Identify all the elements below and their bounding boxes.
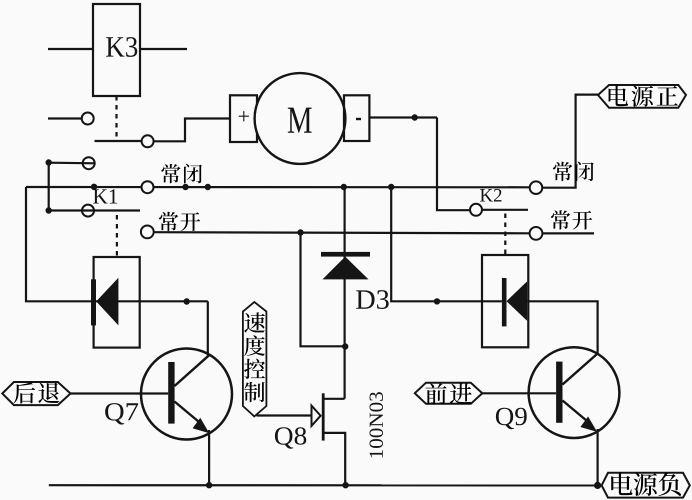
wire K3 contact fixed lead	[48, 117, 82, 119]
diode right-coil triangle	[507, 281, 528, 321]
wire Q7 emitter to ground bus	[208, 430, 210, 485]
wire NO bus	[154, 232, 530, 233]
wire ground bus	[49, 484, 598, 486]
label hou-tui	[14, 382, 35, 403]
label qian-jin	[425, 383, 446, 404]
transistor Q7 collector stroke	[175, 355, 210, 386]
junction dot gnd Q8	[342, 482, 348, 488]
junction dot NC-2	[182, 184, 188, 190]
wire K3 contact to motor	[154, 119, 230, 142]
label +	[239, 111, 249, 121]
contact circle K3 a	[82, 113, 94, 125]
wire K2 movable arm	[482, 209, 528, 211]
wire Q8 gate lead	[257, 414, 312, 416]
wire Q7 collector riser	[207, 301, 209, 355]
wire Q9 emitter to ground bus	[596, 429, 598, 486]
contact circle K2 pivot	[470, 204, 482, 216]
diode left-coil cathode bar	[91, 279, 96, 325]
node terminal hou-tui	[2, 382, 70, 405]
transistor Q7 base bar	[168, 362, 174, 424]
motor M body	[255, 73, 346, 164]
wire NC bus	[26, 186, 530, 189]
label Q9	[496, 408, 527, 429]
label chang-bi left	[161, 164, 180, 183]
label Q8	[275, 427, 306, 449]
junction dot left coil wire	[184, 298, 190, 304]
motor M terminal + box	[230, 95, 257, 142]
transistor Q9 base bar	[556, 362, 562, 423]
diode D3 cathode bar	[321, 252, 370, 257]
relay coil K3	[93, 4, 140, 96]
diode D3 triangle	[323, 257, 369, 280]
motor M terminal - box	[344, 95, 369, 141]
diode left-coil triangle	[96, 278, 118, 326]
junction dot NC-5 to K2 coil	[388, 184, 394, 190]
junction dot NC-3	[205, 184, 211, 190]
wire Q9 base lead	[482, 392, 556, 394]
label chang-kai left	[159, 212, 178, 231]
contact circle K3 b	[142, 135, 154, 147]
wire K3 contact arm	[95, 140, 142, 142]
transistor Q9 body	[529, 347, 620, 438]
contact circle K1 NC	[142, 181, 154, 193]
transistor Q9 emitter arrow	[580, 417, 597, 432]
contact circle K2 NC	[530, 181, 543, 194]
wire Q8 drain jog	[323, 398, 344, 400]
relay coil K2 box	[482, 255, 528, 347]
junction dot NC-4 to D3	[341, 184, 347, 190]
label Q7	[105, 403, 138, 424]
node terminal su-du-kong-zhi	[243, 302, 267, 416]
wire NC bus to right coil	[391, 187, 502, 301]
dashed actuator link K3	[115, 96, 117, 139]
relay coil K1 box	[94, 257, 140, 348]
wire motor to K2 pivot	[437, 118, 470, 211]
label M	[288, 108, 312, 133]
wire Q8 source jog	[323, 433, 345, 485]
transistor Q7 emitter stroke	[175, 402, 203, 425]
label K3	[106, 37, 137, 57]
transistor Q9 emitter stroke	[563, 401, 591, 424]
wire right coil to Q9 collector	[527, 301, 597, 353]
label chang-kai right	[551, 210, 570, 229]
junction dot gnd Q7	[206, 482, 212, 488]
junction dot D3 anode	[342, 343, 348, 349]
junction dot NO to Q8 drain	[297, 229, 303, 235]
wire D3 vertical	[344, 187, 346, 399]
contact circle K1 NO	[141, 226, 154, 239]
node terminal power-negative	[602, 473, 690, 498]
dashed actuator link K1	[116, 215, 118, 256]
junction dot K1 pivot	[46, 207, 52, 213]
wire Q7 base lead	[71, 392, 169, 394]
label su-du-kong-zhi	[244, 312, 265, 332]
label chang-bi right	[553, 162, 572, 181]
wire K1 upper contact	[49, 162, 95, 165]
junction dot gnd Q9	[594, 482, 601, 489]
wire K1 pivot column	[48, 163, 50, 211]
diode right-coil cathode bar	[502, 278, 507, 326]
label K1	[93, 189, 117, 203]
label K2	[480, 189, 501, 202]
junction dot motor lead	[412, 114, 418, 120]
wire K1 movable arm	[49, 209, 140, 211]
transistor Q7 emitter arrow	[193, 418, 210, 433]
node terminal qian-jin	[415, 383, 483, 404]
wire K2 NO stub	[542, 232, 594, 234]
label dian-yuan-zheng	[609, 85, 629, 106]
junction dot right coil wire	[434, 298, 440, 304]
node terminal power-positive	[598, 85, 686, 108]
label 100N03	[369, 392, 383, 457]
junction dot NC-1	[91, 184, 97, 190]
junction dot K1 upper	[46, 159, 52, 165]
contact circle K1 a	[83, 157, 95, 169]
transistor Q7 body	[141, 349, 232, 440]
contact circle K1 pivot	[82, 205, 94, 217]
wire NC bus to left coil	[26, 187, 208, 301]
wire K3 left lead	[48, 48, 93, 50]
wire K3 right lead	[140, 48, 187, 50]
label D3	[356, 290, 389, 309]
transistor Q9 collector stroke	[563, 354, 598, 385]
mosfet Q8 gate arrow	[312, 406, 321, 426]
wire NO bus to D3 anode	[301, 233, 345, 347]
contact circle K2 NO	[530, 227, 543, 240]
label dian-yuan-fu	[611, 473, 632, 495]
label -	[356, 118, 361, 120]
mosfet Q8 channel bar	[322, 393, 325, 440]
dashed actuator link K2	[504, 214, 506, 255]
wire K2 NC to supply riser	[542, 95, 598, 188]
wire motor right lead	[369, 116, 437, 118]
